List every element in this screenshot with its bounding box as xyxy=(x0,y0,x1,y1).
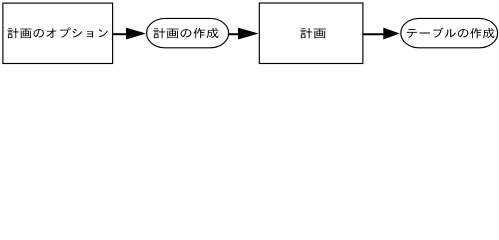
box: 計画 xyxy=(259,3,363,64)
arrow 2 xyxy=(229,33,240,35)
label: 計画の作成 xyxy=(153,28,218,38)
label: テーブルの作成 xyxy=(407,28,495,39)
flowchart diagram xyxy=(0,0,499,66)
stadium: 計画の作成 xyxy=(147,18,229,47)
label: 計画のオプション xyxy=(7,27,107,38)
stadium: テーブルの作成 xyxy=(401,18,498,47)
arrow 3 xyxy=(363,33,385,35)
arrow 1 xyxy=(113,33,128,35)
box: 計画のオプション xyxy=(3,3,113,63)
label: 計画 xyxy=(300,28,326,38)
